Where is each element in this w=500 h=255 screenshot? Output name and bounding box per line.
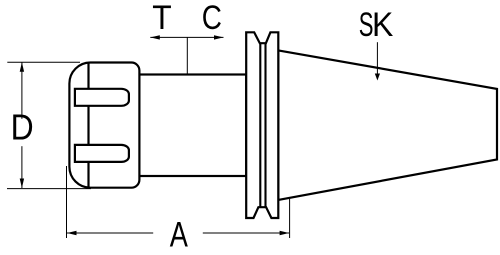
- collet nut body: [69, 63, 139, 188]
- label D: [11, 108, 34, 148]
- label C: [202, 0, 222, 37]
- dimension D line lower segment: [21, 146, 23, 188]
- svg-text:D: D: [11, 108, 34, 148]
- label SK letter K: [372, 5, 393, 43]
- dimension T/C line: [150, 36, 223, 38]
- dimension A left extension line: [66, 166, 68, 238]
- svg-text:C: C: [202, 0, 222, 37]
- dimension A arrow right: [280, 231, 290, 235]
- dimension A line left segment: [67, 232, 153, 234]
- dimension D line upper segment: [21, 62, 23, 119]
- dimension T/C extension line down to shaft: [186, 37, 188, 74]
- dimension T/C arrow left: [150, 35, 160, 39]
- dimension D arrow up: [20, 62, 24, 72]
- SK leader arrowhead: [375, 74, 380, 81]
- svg-text:K: K: [372, 5, 393, 43]
- groove inner edge line right: [264, 43, 266, 207]
- dimension A line right segment: [203, 232, 289, 234]
- SK taper cone: [278, 50, 497, 200]
- dimension D bottom extension line: [7, 188, 91, 190]
- svg-text:A: A: [170, 215, 188, 254]
- SK leader arrow line: [376, 42, 378, 75]
- cylindrical neck (shaft between nut and flange): [139, 75, 246, 177]
- wrench slot 2 (lower): [75, 145, 129, 162]
- dimension A arrow left: [67, 231, 77, 235]
- label A: [170, 215, 188, 254]
- dimension D arrow down: [20, 179, 24, 189]
- V-flange (gripper groove flange): [246, 32, 278, 218]
- groove inner edge line left: [259, 43, 261, 207]
- svg-text:T: T: [152, 0, 171, 36]
- nut face line: [87, 63, 89, 188]
- label T: [152, 0, 171, 36]
- dimension A right extension line: [289, 199, 291, 238]
- label SK letter S: [359, 6, 374, 44]
- dimension D top extension line: [7, 61, 80, 63]
- wrench slot 1 (upper): [75, 89, 129, 106]
- dimension T/C arrow right: [214, 35, 224, 39]
